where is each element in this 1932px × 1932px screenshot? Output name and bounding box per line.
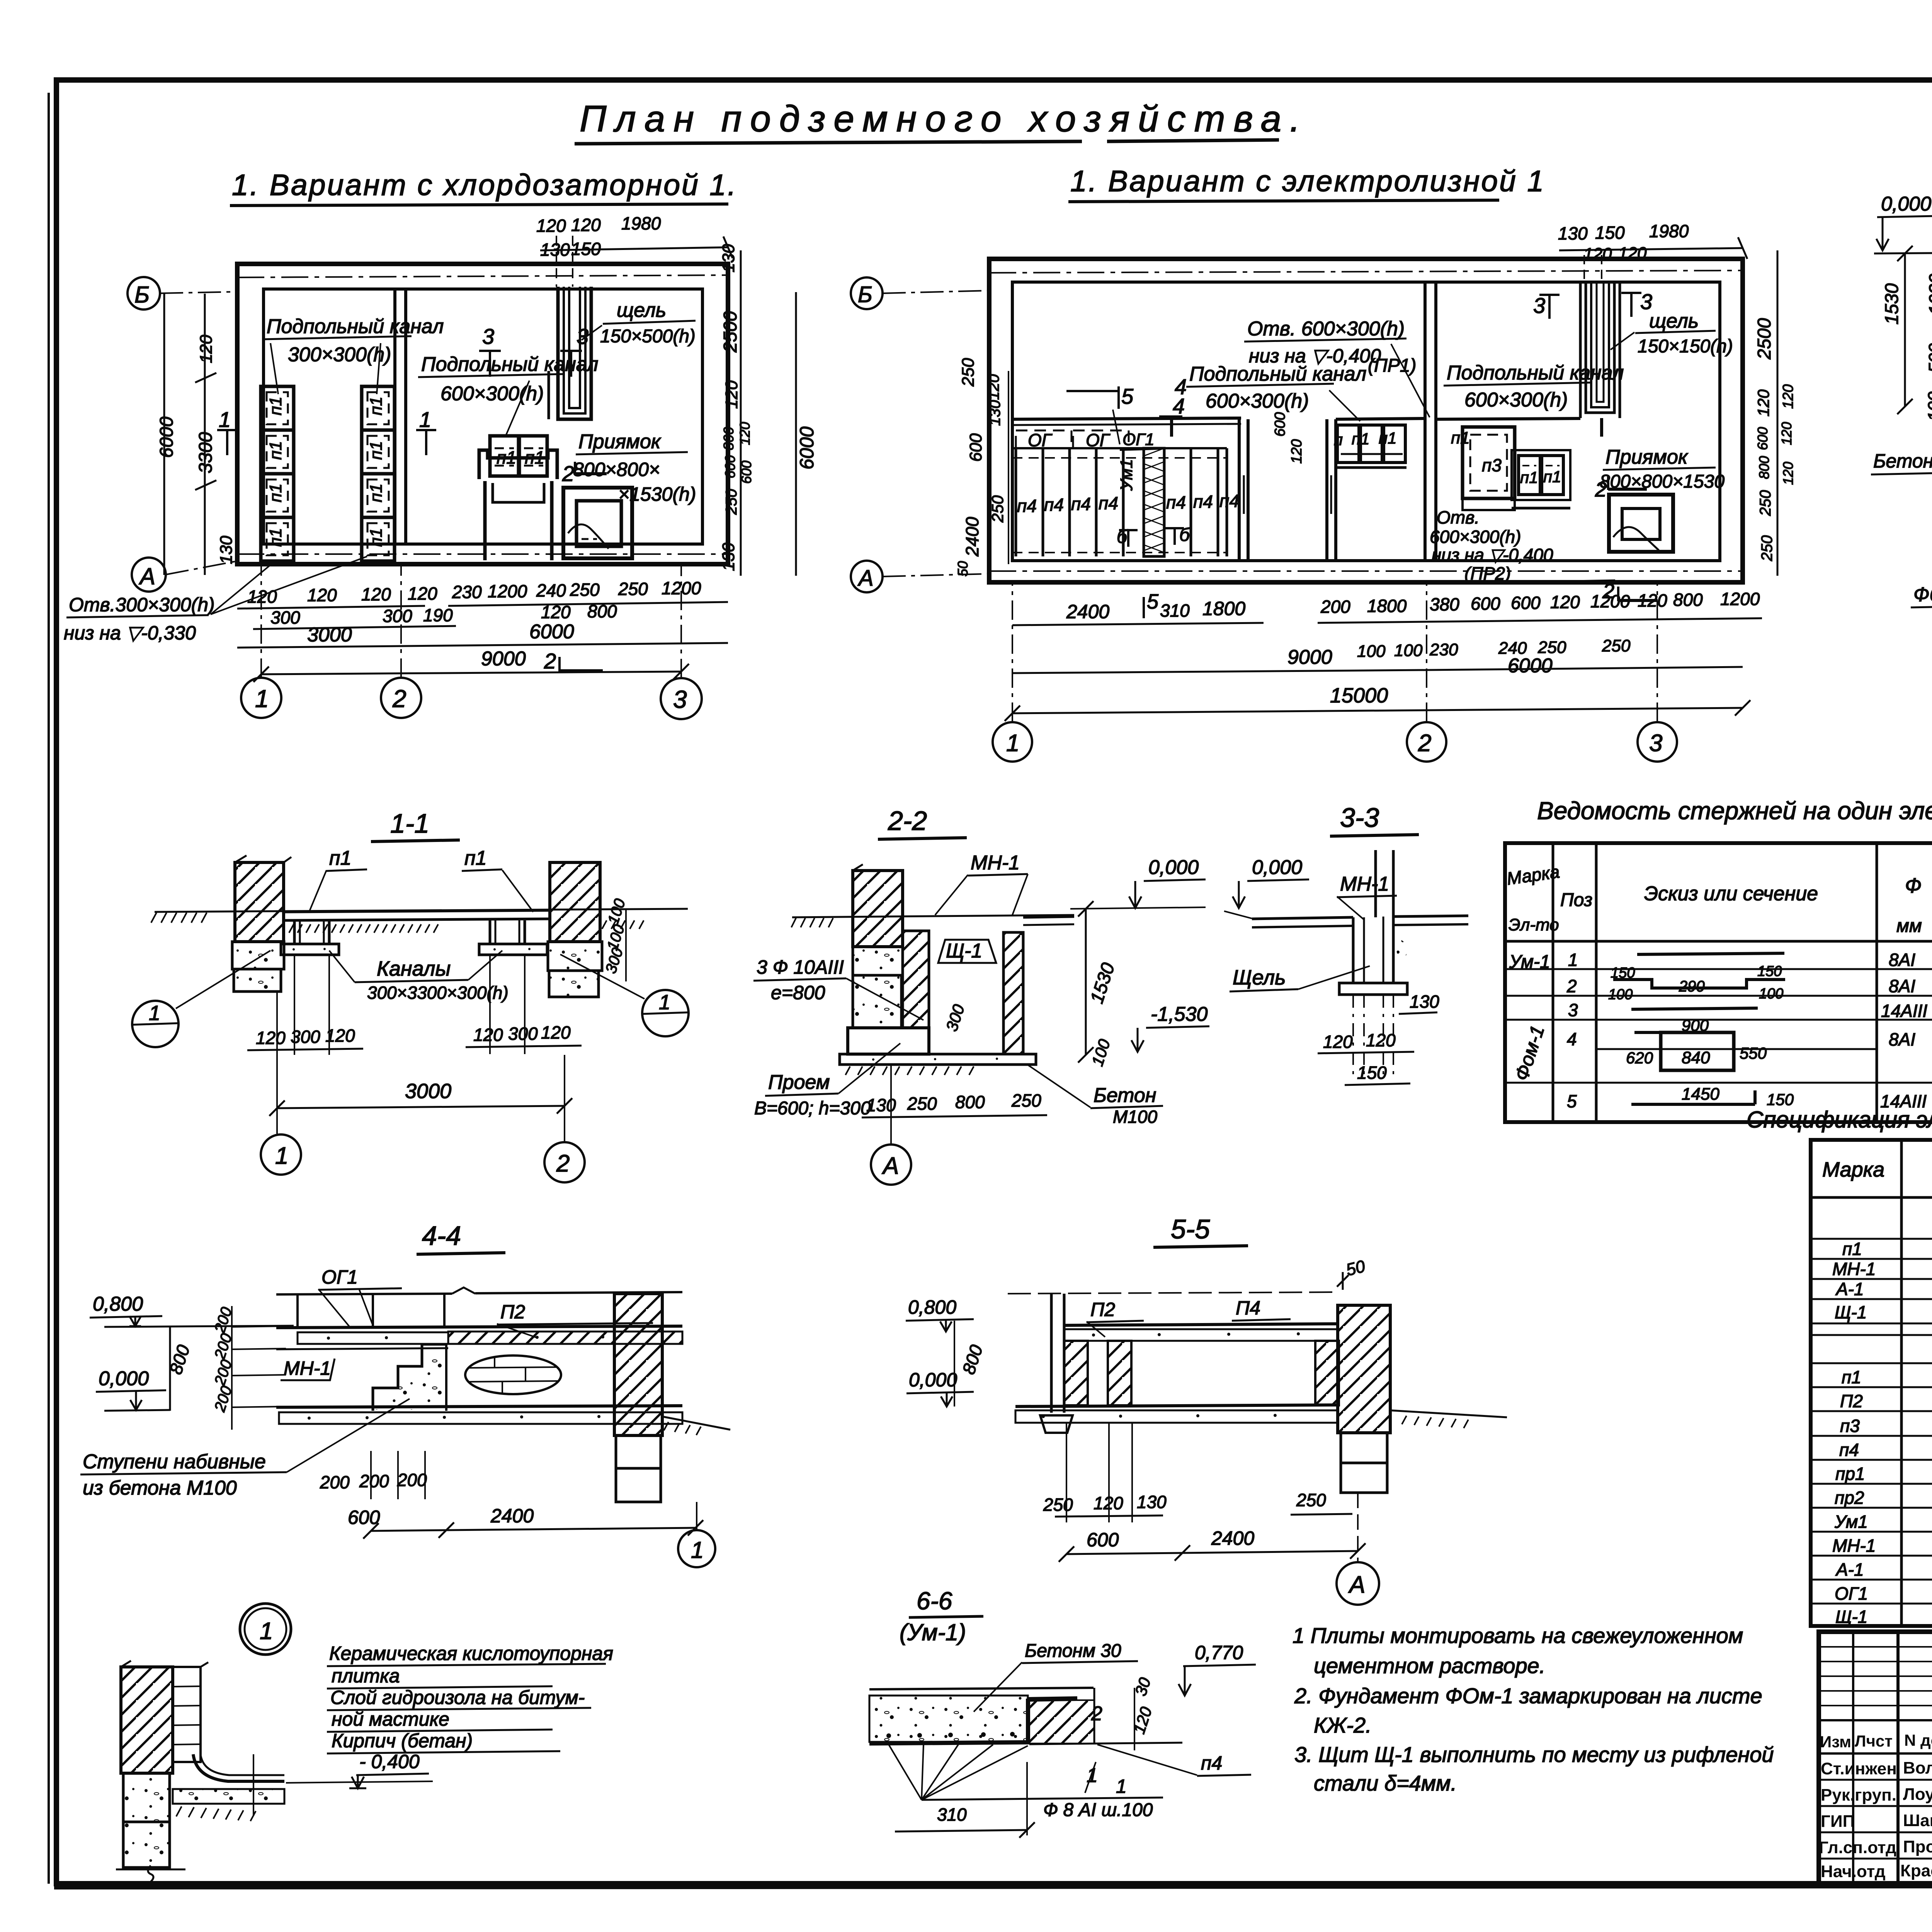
svg-text:800: 800 (1756, 456, 1772, 479)
svg-text:3000: 3000 (307, 624, 352, 646)
svg-text:5: 5 (1147, 590, 1159, 613)
svg-text:9000: 9000 (481, 648, 526, 670)
plan2 bottom dim row 2 (1012, 636, 1743, 677)
main title: План подземного хозяйства (575, 98, 1309, 144)
4-4 bottom dims (320, 1451, 703, 1539)
svg-text:600: 600 (722, 455, 738, 478)
svg-text:0,770: 0,770 (1195, 1642, 1243, 1663)
plan2 п1 plate row (1334, 425, 1470, 468)
title block outer (1819, 1632, 1932, 1886)
svg-text:стали δ=4мм.: стали δ=4мм. (1314, 1771, 1457, 1795)
svg-text:150×500(h): 150×500(h) (600, 326, 696, 347)
plan2 section mark 4 (1159, 374, 1187, 437)
4-4 bottom slab (276, 1406, 682, 1424)
svg-text:А: А (1348, 1571, 1365, 1598)
svg-text:120: 120 (1366, 1030, 1396, 1050)
svg-text:310: 310 (937, 1804, 967, 1825)
svg-text:150×150(h): 150×150(h) (1638, 336, 1733, 357)
svg-text:2. Фундамент ФОм-1 замаркиров: 2. Фундамент ФОм-1 замаркирован на листе (1294, 1684, 1762, 1708)
svg-text:1980: 1980 (1649, 221, 1689, 241)
5-5 bottom slab (1015, 1405, 1338, 1423)
svg-text:130: 130 (217, 536, 236, 564)
spec grid (1811, 1140, 1932, 1626)
svg-text:Ум-1: Ум-1 (1509, 952, 1550, 972)
2-2 base slab (840, 1054, 1036, 1075)
5-5 hatched piers (1064, 1341, 1339, 1405)
svg-text:мм: мм (1896, 916, 1922, 936)
svg-text:2400: 2400 (962, 517, 982, 557)
svg-text:800×800×: 800×800× (573, 459, 660, 480)
svg-text:П2: П2 (1840, 1391, 1863, 1411)
svg-text:120: 120 (361, 584, 391, 604)
svg-text:1 Плиты монтировать на свежеул: 1 Плиты монтировать на свежеуложенном (1293, 1623, 1743, 1648)
svg-text:600: 600 (1755, 427, 1770, 450)
3-3 МН-1 label (1337, 873, 1397, 920)
svg-text:300: 300 (383, 606, 412, 626)
svg-text:п1: п1 (266, 441, 285, 460)
svg-text:3: 3 (673, 685, 687, 713)
svg-text:- 0,400: - 0,400 (359, 1751, 420, 1772)
4-4 level 0,800 (90, 1293, 294, 1327)
ведомость mark labels (1509, 952, 1550, 1083)
svg-text:п4: п4 (1193, 492, 1213, 512)
plan1 section mark 1 left (217, 407, 237, 455)
1-1 node circle right (560, 954, 689, 1036)
svg-text:130: 130 (719, 543, 738, 571)
svg-text:120: 120 (737, 422, 753, 445)
svg-text:250: 250 (1011, 1090, 1041, 1111)
svg-text:230: 230 (452, 582, 482, 602)
plan1 bottom dim row 1 (237, 578, 728, 609)
1-1 left wall (232, 855, 291, 992)
svg-text:230: 230 (1429, 640, 1458, 659)
svg-text:0,000: 0,000 (909, 1369, 957, 1391)
svg-text:2-2: 2-2 (888, 806, 927, 836)
2-2 бетон М100 label (1028, 1065, 1163, 1127)
4-4 П2 label (497, 1301, 653, 1338)
1-1 dims 120 300 120 (247, 955, 582, 1055)
plan2 приямок label (1600, 446, 1725, 492)
1-1 канал right (479, 920, 547, 955)
plan1 label подпольный канал 300x300 (264, 315, 444, 394)
ведомость sketch row1 straight bar (1637, 953, 1784, 954)
4-4 ОГ1 label (318, 1266, 402, 1327)
keramika wall base blocks (116, 1773, 185, 1882)
svg-text:2: 2 (1418, 730, 1431, 757)
svg-text:ОГ1: ОГ1 (1122, 430, 1155, 449)
svg-text:пр2: пр2 (1835, 1488, 1864, 1508)
plan1 axis centerline top (237, 275, 728, 277)
plan2 pit right (1609, 495, 1673, 552)
keramika level -0,400 (349, 1751, 429, 1788)
svg-text:Приямок: Приямок (578, 430, 662, 453)
1-1 ground line (151, 909, 688, 933)
svg-text:п1: п1 (367, 441, 386, 460)
plan1 п1 plate column left (261, 386, 294, 561)
svg-text:п1: п1 (329, 847, 352, 869)
plan2 ОГ1 label (1113, 410, 1159, 450)
svg-text:2: 2 (1595, 478, 1607, 501)
svg-text:600: 600 (1272, 412, 1288, 437)
1-1 right wall (548, 862, 602, 997)
plan2 bottom dim row 1 (1012, 580, 1762, 625)
svg-text:3-3: 3-3 (1340, 803, 1379, 833)
plan2 axis circle Б (851, 277, 989, 309)
svg-text:290: 290 (1679, 978, 1705, 995)
svg-text:3: 3 (1568, 1000, 1578, 1020)
svg-text:250: 250 (618, 579, 648, 599)
svg-text:3: 3 (1533, 293, 1545, 318)
svg-text:120: 120 (256, 1028, 286, 1048)
2-2 Щ-1 label (938, 940, 996, 963)
1-1 title (371, 808, 460, 842)
svg-text:цементном растворе.: цементном растворе. (1314, 1653, 1545, 1678)
3-3 title (1330, 803, 1419, 836)
svg-text:150: 150 (1595, 223, 1625, 243)
plan1 axis circle Б (128, 277, 237, 310)
ведомость поз numbers (1566, 950, 1578, 1111)
svg-text:3000: 3000 (405, 1080, 451, 1103)
svg-text:800: 800 (721, 427, 736, 450)
svg-text:120: 120 (1754, 389, 1772, 417)
svg-text:щель: щель (617, 299, 666, 321)
svg-text:120: 120 (541, 602, 571, 622)
plan2 bottom dim 15000 (1005, 684, 1750, 721)
4-4 floor slab (276, 1326, 682, 1349)
svg-text:150: 150 (1357, 1063, 1387, 1083)
svg-text:1-1: 1-1 (390, 808, 429, 838)
svg-text:1: 1 (659, 991, 670, 1014)
svg-text:100: 100 (1394, 641, 1423, 660)
svg-text:(Ум-1): (Ум-1) (900, 1619, 966, 1645)
svg-text:Слой гидроизола на битум-: Слой гидроизола на битум- (330, 1687, 585, 1708)
plan2 outer wall (989, 259, 1743, 582)
5-5 right wall (1338, 1305, 1507, 1493)
svg-text:2400: 2400 (1211, 1527, 1254, 1549)
6-6 level 0,770 (1179, 1642, 1256, 1696)
4-4 grid circle 1 (678, 1502, 715, 1567)
2-2 title (878, 806, 967, 839)
svg-text:120: 120 (473, 1025, 503, 1045)
plan1 axis circle А (132, 558, 237, 592)
svg-text:250: 250 (1757, 490, 1774, 516)
6-6 Ф8АI label (922, 1776, 1163, 1820)
svg-text:8АI: 8АI (1889, 950, 1915, 970)
svg-text:2500: 2500 (1754, 318, 1775, 360)
svg-text:Красавин: Красавин (1900, 1861, 1932, 1880)
svg-text:ОГ1: ОГ1 (321, 1266, 358, 1288)
svg-text:0,000: 0,000 (1252, 856, 1302, 879)
5-5 +50 mark (1337, 1257, 1367, 1290)
svg-text:-1,530: -1,530 (1151, 1003, 1208, 1026)
subtitle variant 2: Вариант с электролизной (1068, 165, 1545, 202)
svg-text:1530: 1530 (1882, 283, 1902, 325)
plan1 outer wall (237, 264, 728, 564)
svg-text:120: 120 (1323, 1032, 1353, 1052)
plan1 grid circles 1 2 3 (241, 565, 702, 719)
svg-text:ной мастике: ной мастике (332, 1708, 449, 1730)
2-2 ground line (791, 915, 1074, 927)
svg-text:600: 600 (348, 1507, 380, 1528)
spec header row (1822, 1148, 1932, 1191)
3-3 slab (1224, 911, 1468, 927)
svg-text:Ст.инжен: Ст.инжен (1821, 1759, 1897, 1778)
svg-text:КЖ-2.: КЖ-2. (1314, 1713, 1372, 1737)
svg-text:Ф: Ф (1905, 874, 1922, 897)
svg-text:120: 120 (197, 335, 216, 363)
svg-text:низ на ▽-0,330: низ на ▽-0,330 (64, 622, 196, 644)
svg-text:п4: п4 (1839, 1440, 1859, 1460)
svg-text:600×300(h): 600×300(h) (440, 383, 544, 405)
spec rows хлордозаторная (1832, 1237, 1932, 1322)
svg-text:120: 120 (247, 587, 277, 607)
svg-text:100: 100 (1357, 642, 1386, 661)
7-7 label Ф600 (1911, 583, 1932, 641)
plan2 б section marks (1117, 525, 1190, 547)
svg-text:ГИП: ГИП (1821, 1812, 1855, 1831)
4-4 level 0,000 (96, 1367, 170, 1411)
svg-text:6000: 6000 (529, 621, 574, 643)
svg-text:250: 250 (1043, 1495, 1073, 1515)
svg-text:Отв.300×300(h): Отв.300×300(h) (69, 594, 215, 616)
plan1 dims above (120 120 1980 / 130 150) (536, 213, 733, 287)
svg-text:В=600; h=300: В=600; h=300 (754, 1098, 871, 1119)
svg-text:N докум: N докум (1904, 1731, 1932, 1749)
svg-text:120: 120 (1780, 462, 1796, 485)
svg-text:3: 3 (577, 324, 588, 349)
plan1 partition wall (395, 289, 406, 544)
svg-text:Изм: Изм (1820, 1733, 1851, 1751)
svg-text:2: 2 (562, 461, 574, 486)
keramika floor (173, 1754, 433, 1821)
svg-text:120: 120 (722, 380, 741, 409)
svg-text:500: 500 (1925, 343, 1932, 373)
3-3 zero level (1233, 856, 1309, 908)
svg-text:Рук.груп.: Рук.груп. (1821, 1786, 1896, 1804)
plan2 п4 plate strips (1012, 448, 1227, 556)
svg-text:Бетонм100: Бетонм100 (1873, 450, 1932, 472)
svg-text:3: 3 (482, 324, 494, 349)
svg-text:240: 240 (536, 580, 566, 600)
4-4 МН-1 label (281, 1357, 335, 1380)
plan1 label подпольный канал 600x300 (418, 353, 598, 435)
3-3 pier (1339, 917, 1410, 995)
svg-text:1: 1 (255, 685, 269, 713)
2-2 МН-1 label (935, 852, 1028, 915)
1-1 node circle left (132, 951, 270, 1047)
plan2 отв ПР2 label (1430, 507, 1615, 583)
svg-text:120: 120 (1550, 592, 1580, 612)
2-2 bottom dims (862, 1065, 1047, 1144)
svg-text:120: 120 (1618, 244, 1647, 263)
2-2 Ф10АIII label (753, 956, 923, 1020)
2-2 floor right of pit (1023, 917, 1074, 925)
svg-text:600: 600 (1471, 594, 1500, 614)
svg-text:250: 250 (907, 1094, 937, 1114)
svg-text:Ведомость стержней на один эле: Ведомость стержней на один элемент (1537, 797, 1932, 825)
svg-text:100: 100 (1924, 391, 1932, 421)
plan1 left rotated dims (156, 294, 236, 575)
svg-text:Подпольный канал: Подпольный канал (267, 315, 444, 338)
3-3 wall above (1376, 850, 1393, 917)
svg-text:Лоуцкер: Лоуцкер (1903, 1785, 1932, 1804)
fom1 left rotated dims (1882, 246, 1932, 421)
svg-text:Приямок: Приямок (1605, 446, 1689, 468)
fom1 zero level (1874, 193, 1932, 253)
svg-text:А-1: А-1 (1835, 1560, 1864, 1580)
plan1 axis centerline bottom (237, 553, 728, 555)
svg-text:п3: п3 (1840, 1416, 1860, 1436)
svg-text:150: 150 (1757, 963, 1782, 980)
ведомость header text (1505, 861, 1932, 936)
svg-text:2500: 2500 (720, 311, 741, 353)
2-2 dim 1530 (1078, 901, 1119, 1063)
5-5 left thin wall (1040, 1294, 1073, 1433)
svg-text:250: 250 (1759, 535, 1776, 561)
svg-text:МН-1: МН-1 (1340, 873, 1389, 895)
svg-text:250: 250 (959, 358, 978, 387)
svg-text:П2: П2 (1090, 1299, 1115, 1320)
svg-text:800: 800 (955, 1092, 985, 1112)
svg-text:п4: п4 (1201, 1752, 1222, 1774)
svg-text:130: 130 (986, 400, 1003, 426)
svg-text:Щ-1: Щ-1 (946, 940, 982, 962)
5-5 levels left (906, 1292, 1337, 1406)
plan1 label щель (582, 299, 696, 347)
plan2 щель label (1611, 310, 1733, 357)
plan1 right rotated dims (719, 244, 818, 576)
svg-text:1: 1 (1568, 950, 1578, 970)
spec rows электролизная (1832, 1366, 1932, 1627)
svg-text:(ПР1): (ПР1) (1368, 355, 1416, 376)
svg-text:190: 190 (423, 605, 453, 625)
svg-text:Поз: Поз (1560, 890, 1592, 910)
svg-text:Подпольный канал: Подпольный канал (1189, 363, 1366, 385)
plan2 slot щель (1580, 282, 1620, 437)
plan1 section mark 3 left (479, 324, 501, 377)
svg-text:550: 550 (1740, 1044, 1767, 1062)
svg-text:1: 1 (1006, 730, 1019, 757)
svg-text:Отв. 600×300(h): Отв. 600×300(h) (1247, 318, 1405, 340)
svg-text:п4: п4 (1099, 493, 1118, 513)
plan1 приямок structure center (479, 436, 557, 560)
svg-text:Бетон: Бетон (1094, 1084, 1156, 1107)
ведомость Ф values (1880, 950, 1927, 1111)
svg-text:План подземного хозяйства.: План подземного хозяйства. (580, 98, 1309, 139)
subtitle variant 1: Вариант с хлордозаторной (230, 168, 737, 206)
svg-text:120: 120 (541, 1022, 571, 1043)
svg-text:120: 120 (1583, 245, 1612, 264)
svg-text:п1: п1 (367, 528, 386, 547)
6-6 leader fan (889, 1745, 1028, 1800)
svg-text:Марка: Марка (1822, 1158, 1884, 1181)
svg-text:П4: П4 (1236, 1297, 1260, 1319)
plan2 подпольный канал label right (1444, 362, 1624, 411)
svg-text:6000: 6000 (156, 417, 177, 458)
svg-text:2: 2 (556, 1150, 570, 1177)
plan2 section mark 5 top (1066, 384, 1134, 409)
svg-text:Ф 8 АI ш.100: Ф 8 АI ш.100 (1043, 1800, 1153, 1820)
2-2 pit walls hatched (903, 931, 1023, 1054)
svg-text:50: 50 (955, 561, 971, 577)
svg-text:130: 130 (1410, 992, 1439, 1012)
svg-text:п1: п1 (266, 396, 285, 415)
2-2 level -1,530 (1131, 1003, 1209, 1052)
plan2 corridor walls (1239, 412, 1336, 561)
svg-text:Шапиро: Шапиро (1903, 1811, 1932, 1830)
svg-text:низ на ▽-0,400: низ на ▽-0,400 (1432, 545, 1553, 565)
1-1 floor slab (284, 910, 550, 920)
plan2 left rotated dims (955, 358, 1009, 577)
2-2 zero level (1070, 856, 1206, 909)
svg-text:А: А (881, 1153, 899, 1179)
keramika wall (121, 1661, 208, 1773)
node circle 1 (240, 1604, 291, 1655)
svg-text:п1: п1 (1352, 430, 1369, 448)
svg-text:15000: 15000 (1330, 684, 1388, 707)
plan2 axis centerlines (989, 270, 1743, 273)
svg-text:щель: щель (1649, 310, 1699, 332)
svg-text:250: 250 (1537, 638, 1566, 657)
svg-text:п1: п1 (266, 528, 285, 547)
ведомость sketch row2 bent bar (1608, 963, 1785, 1003)
svg-text:1800: 1800 (1367, 596, 1407, 616)
svg-text:Б: Б (134, 282, 150, 308)
svg-text:плитка: плитка (332, 1665, 400, 1687)
fom1 бетон label (1871, 410, 1932, 474)
svg-text:2: 2 (1566, 976, 1577, 996)
svg-text:Нач.отд: Нач.отд (1821, 1862, 1886, 1881)
svg-text:А: А (857, 566, 874, 591)
svg-text:А: А (139, 563, 155, 589)
svg-text:120: 120 (536, 216, 566, 236)
svg-text:0,000: 0,000 (99, 1367, 149, 1390)
6-6 title (900, 1587, 983, 1645)
ведомость sketch row5 hooked bar (1631, 1085, 1794, 1109)
svg-text:Керамическая кислотоупорная: Керамическая кислотоупорная (329, 1643, 613, 1664)
svg-text:6-6: 6-6 (917, 1587, 952, 1615)
svg-text:300: 300 (508, 1024, 538, 1044)
svg-text:Володин: Володин (1903, 1759, 1932, 1777)
svg-text:Б: Б (858, 282, 872, 307)
svg-text:3 Ф 10АIII: 3 Ф 10АIII (757, 956, 844, 978)
svg-text:4-4: 4-4 (422, 1221, 461, 1251)
svg-text:МН-1: МН-1 (1832, 1536, 1876, 1556)
svg-text:п4: п4 (1166, 492, 1186, 512)
svg-text:Ступени набивные: Ступени набивные (83, 1451, 266, 1473)
svg-text:п1: п1 (1451, 429, 1470, 447)
svg-text:0,000: 0,000 (1148, 856, 1199, 879)
svg-text:0,800: 0,800 (93, 1293, 143, 1315)
plan1 section mark 3 right (560, 324, 588, 377)
plan1 п1 plate column right (362, 386, 395, 561)
svg-text:Щ-1: Щ-1 (1835, 1302, 1867, 1322)
plan2 axis circle А (851, 561, 989, 592)
svg-text:5: 5 (1121, 384, 1134, 408)
plan2 отв 600x300 ПР1 label (1244, 318, 1430, 417)
plan1 bottom axis dim 9000 (253, 648, 689, 682)
6-6 pos marks 2 1 (1085, 1702, 1102, 1793)
svg-text:п: п (1334, 430, 1343, 449)
plan1 slot щель nested U (549, 287, 591, 419)
svg-text:120: 120 (985, 374, 1002, 400)
svg-text:М100: М100 (1113, 1107, 1157, 1127)
svg-text:1: 1 (1116, 1776, 1127, 1797)
svg-text:600×300(h): 600×300(h) (1464, 389, 1568, 411)
svg-text:1: 1 (419, 407, 431, 432)
svg-text:из бетона М100: из бетона М100 (83, 1477, 237, 1499)
svg-text:п4: п4 (1071, 494, 1091, 514)
